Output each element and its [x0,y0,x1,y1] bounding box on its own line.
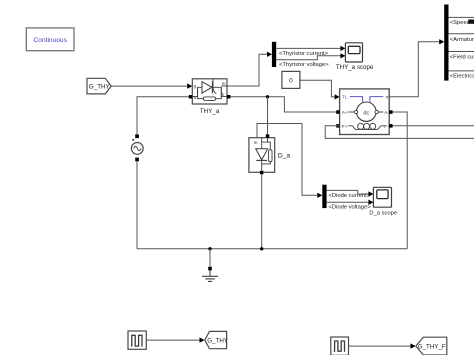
svg-text:<Armature c: <Armature c [450,37,474,43]
bus selector B3 (diode measurements) [322,185,326,208]
A+ internal lead [348,111,354,113]
wire B3 out1 to D_a scope [327,190,369,194]
wire B3 out2 to D_a scope [327,201,369,203]
wire bus B1 out1 to scope [276,47,341,49]
bottom rail wire [137,248,407,250]
field winding leads [348,126,384,130]
wire D_a m to bus selector B3 [257,124,318,196]
svg-text:D_a: D_a [278,152,290,159]
svg-text:0: 0 [289,77,293,84]
arrowhead D_a scope in1 [368,191,373,196]
wire P1 to goto tag G_THY [146,339,200,341]
arrowhead into bus selector B1 [267,52,272,57]
svg-text:G_THY: G_THY [89,84,111,91]
arrowhead into TL [335,94,340,99]
armature ellipse dc [357,102,377,121]
port square A- [389,110,393,114]
wire D_a anode to bottom rail [261,174,263,249]
wire B2 out1 Speed [449,16,474,18]
port square anode bottom [260,171,264,175]
wire B2 out4 Electrical torque [449,70,474,72]
gate lead [213,79,216,94]
svg-text:<Electrical: <Electrical [450,74,474,80]
wire P2 to goto tag G_THY_F [349,345,412,347]
field winding loop 3 [370,123,376,129]
wire bus B1 out2 to scope [276,56,341,60]
wire AC source top to thyristor anode [137,97,189,135]
cathode port inner stub [267,138,269,142]
wire junction down to diode D_a cathode [267,97,269,135]
cathode bar [256,159,267,161]
svg-text:THY_a scope: THY_a scope [336,64,374,71]
powergui block "Continuous" [26,28,74,51]
arrowhead into bus selector B3 [317,193,322,198]
svg-text:D_a scope: D_a scope [369,210,397,216]
diode triangle [256,149,268,160]
arrowhead into gate g [187,83,192,88]
svg-text:THY_a: THY_a [200,108,220,115]
cathode lead [261,160,263,172]
port square a [189,95,193,99]
wire G_THY to thyristor gate [111,85,187,87]
svg-text:<Diode voltage>: <Diode voltage> [329,205,372,211]
m internal stub [221,85,227,87]
svg-text:G_THY: G_THY [207,337,228,344]
snubber branch bottom [262,162,271,164]
field winding loop 1 [358,123,364,129]
port square F- [389,124,393,128]
svg-text:m: m [386,95,390,100]
anode lead [261,138,263,149]
junction ground [208,247,211,250]
snubber RC [198,87,204,98]
svg-text:dc: dc [363,110,369,116]
bus selector B2 (machine measurements) [444,5,448,81]
svg-text:<Thyristor voltage>: <Thyristor voltage> [279,62,329,68]
goto tag G_THY [205,331,228,348]
wire rail to ground [209,249,211,267]
A- internal lead [378,111,383,113]
wire B2 out2 Armature [449,33,474,35]
wire constant 0 to TL [300,80,335,97]
internal conductor k-side [212,87,227,96]
svg-text:F-: F- [384,124,389,130]
svg-text:<Field curre: <Field curre [450,54,474,60]
snubber branch top [262,142,271,150]
port square A+ [336,110,340,114]
scope D_a scope [373,187,391,207]
arrowhead into goto G_THY [200,337,205,342]
pulse generator P2 [331,337,349,355]
svg-text:TL: TL [342,95,348,101]
svg-text:A-: A- [384,110,389,116]
scope THY_a scope [345,43,362,62]
svg-text:<Diode current>: <Diode current> [329,193,371,199]
wire thyristor k to junction and armature A+ [230,97,336,112]
svg-text:m: m [254,140,258,145]
snubber resistor [269,150,272,162]
pulse generator P1 [128,331,146,349]
AC voltage source V1 [131,134,143,161]
ground G1 [202,267,218,282]
port square cathode top [266,134,270,138]
wire machine m to bus selector B2 [389,42,440,97]
From tag G_THY [87,78,111,94]
wire thyristor m to bus selector B1 [227,54,268,86]
thyristor block THY_a [189,79,231,104]
brush contact right [375,110,378,113]
port square k [227,95,231,99]
constant block 0 [282,71,300,88]
wire B2 out3 Field [449,51,474,53]
goto tag G_THY_F [416,337,447,355]
svg-text:<Speed: <Speed [450,20,470,26]
svg-text:F+: F+ [342,124,348,130]
svg-text:Continuous: Continuous [34,37,68,44]
brush contact left [354,110,357,113]
DC machine block U1 [336,89,392,135]
diode block D_a [249,134,275,174]
thyristor symbol triangle [202,82,212,94]
arrowhead into goto G_THY_F [411,343,416,348]
TL internal blue wire [350,97,363,103]
wire A- down to bottom rail [393,112,408,249]
wire AC source bottom to bottom rail [136,161,138,249]
cathode bar [211,81,213,93]
arrowhead into bus selector B2 [439,39,444,44]
svg-text:A+: A+ [342,110,348,116]
arrowhead scope in2 [340,53,345,58]
junction node k [266,95,269,98]
field winding loop 2 [364,123,370,129]
m internal blue wire [370,97,383,103]
svg-text:m: m [222,81,226,86]
wire F+ loop to right edge [325,126,474,139]
arrowhead D_a scope in2 [368,200,373,205]
cropped block at right edge [468,20,474,24]
arrowhead scope in1 [340,46,345,51]
svg-text:G_THY_F: G_THY_F [418,343,446,350]
wire F- to right edge [393,125,474,127]
bus selector B1 (thyristor measurements) [272,42,276,67]
port square F+ [336,124,340,128]
internal conductor a-side [192,87,202,96]
junction diode anode [260,247,263,250]
